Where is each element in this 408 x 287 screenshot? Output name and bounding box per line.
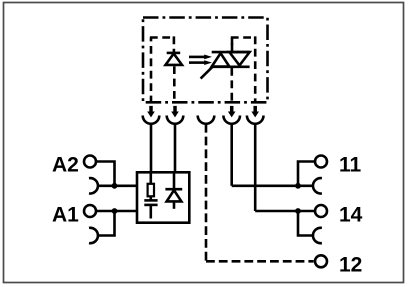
socket contact under 14: [313, 228, 322, 243]
terminal 12 circle: [315, 255, 327, 267]
wire: plug 1 to input box: [150, 124, 153, 173]
wire: A1 socket up to junction: [98, 211, 115, 236]
diode lower lead: [173, 201, 176, 208]
svg-text:A2: A2: [52, 154, 79, 177]
wire: plug 5 down to contact 14 rail: [254, 124, 257, 211]
wire: plug 4 down to contact 11 rail: [230, 124, 233, 186]
wire: triac bottom lead (dashed, to plug 4): [231, 68, 234, 103]
socket contact under 11: [313, 178, 322, 193]
capacitor lower lead: [150, 205, 153, 219]
resistor R1: [148, 184, 154, 197]
junction dot 11: [295, 183, 301, 189]
plug contact 1 (socket cup): [143, 116, 160, 124]
wire: LED circuit top link: [150, 36, 174, 39]
wire: contact 14 rail: [255, 210, 314, 213]
wire: terminal 11 to junction: [298, 162, 315, 186]
capacitor C1 plate 1: [144, 199, 157, 202]
terminal 11 circle: [315, 156, 327, 168]
relay module outline K1 (dash-dot box): [143, 18, 268, 103]
triac top lead: [231, 44, 234, 54]
junction dot A2: [112, 183, 118, 189]
wire: triac circuit top link: [231, 36, 255, 39]
wire: 14 socket up to junction: [298, 211, 313, 236]
wire: A1 to input box: [96, 210, 137, 213]
wire: LED anode lead (dashed): [173, 66, 176, 103]
svg-text:14: 14: [339, 204, 363, 227]
wire: A2 socket to input box: [97, 185, 137, 188]
plug contact 1 pin arrow: [149, 106, 153, 112]
resistor lead: [150, 172, 153, 184]
triac right triangle: [229, 52, 249, 65]
wire: contact 11 rail: [232, 185, 314, 188]
plug contact 4 pin arrow: [230, 106, 234, 112]
triac gate lead: [201, 67, 213, 79]
triac bottom bar: [212, 66, 250, 69]
wire: plug 3 down (dashed, unused path to 12): [205, 124, 208, 261]
svg-text:A1: A1: [52, 204, 79, 227]
terminal A2 circle: [84, 156, 96, 168]
socket contact under A2: [89, 178, 98, 193]
LED triangle: [166, 54, 183, 65]
wire: LED circuit left leg (dashed, plug 1 to top): [150, 38, 153, 104]
wire: LED cathode lead (dashed): [173, 36, 176, 52]
terminal A1 circle: [84, 205, 96, 217]
triac left triangle: [212, 53, 230, 66]
plug contact 5 pin arrow: [253, 106, 257, 112]
diode D1 cathode bar: [165, 188, 182, 191]
wire: triac upper leg (dashed): [231, 38, 234, 46]
optocoupler light arrow 2: [189, 60, 212, 65]
capacitor C1 plate 2: [144, 204, 157, 207]
triac top bar: [212, 51, 250, 54]
wire: dashed link plug 3 to terminal 12: [206, 260, 314, 263]
input circuit box: [137, 172, 189, 222]
diode D1 triangle: [167, 190, 182, 201]
plug contact 2 (socket cup): [167, 116, 184, 124]
socket contact under A1: [89, 228, 98, 243]
optocoupler light arrow 1: [189, 55, 212, 60]
wire: A2 to junction: [96, 162, 115, 186]
plug contact 3 (socket cup, unused): [198, 116, 215, 124]
plug contact 5 (socket cup): [247, 116, 264, 124]
svg-text:11: 11: [339, 154, 362, 177]
terminal 14 circle: [315, 205, 327, 217]
junction dot A1: [112, 208, 118, 214]
LED cathode bar: [167, 52, 181, 55]
plug contact 4 (socket cup): [223, 116, 240, 124]
diode upper lead: [173, 172, 176, 189]
wire: triac circuit right leg (dashed, to plug 5): [254, 36, 257, 103]
wire: plug 2 to input box: [174, 124, 177, 173]
wire: resistor to capacitor: [150, 196, 153, 200]
plug contact 2 pin arrow: [173, 106, 177, 112]
svg-text:12: 12: [339, 254, 362, 277]
junction dot 14: [295, 208, 301, 214]
